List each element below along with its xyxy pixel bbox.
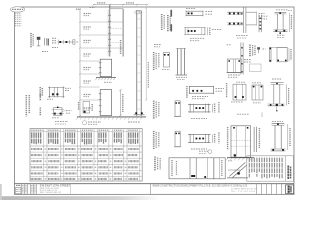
- wide beam elevation M10: [154, 157, 156, 172]
- faint rect band3: [250, 64, 262, 72]
- clip column tall (x241): [240, 43, 242, 75]
- moment connection R1: [231, 6, 241, 8]
- beam connection detail lower: [185, 27, 206, 29]
- column elevation E1 (tall): [109, 5, 111, 56]
- note text left: [42, 51, 48, 53]
- section symbol band2: [257, 47, 260, 49]
- beam plan with bolts: [58, 41, 75, 43]
- sheet border: [15, 7, 295, 194]
- legend block with vertical text: [247, 156, 294, 181]
- bubble at top of narrow column: [135, 11, 140, 14]
- table vertical header band: [31, 132, 33, 143]
- column detail R16: [272, 121, 283, 123]
- column elevation E2 (middle): [100, 59, 111, 76]
- notes column M1: [153, 52, 155, 70]
- beam right of column R1: [246, 11, 257, 13]
- detail: column plan C (x50-70,y106-119): [25, 95, 27, 117]
- stamp / logo cells: [20, 184, 22, 195]
- svg-text:TEL: 212 555 0199: TEL: 212 555 0199: [231, 191, 255, 193]
- note block band3: [244, 59, 251, 61]
- revision bubble top-left: [10, 7, 24, 12]
- dense note block band2: [249, 45, 251, 57]
- table column lines: [43, 129, 45, 181]
- small I-beam section: [37, 37, 41, 40]
- small note top-left band2: [227, 44, 232, 46]
- revision columns right: [256, 184, 258, 195]
- top dimension line 29-0: [93, 4, 148, 6]
- sheet number box: [286, 185, 294, 194]
- section M2: [164, 53, 170, 68]
- base detail left of E3: [78, 102, 80, 110]
- beam detail M4: [186, 86, 188, 98]
- notes column T1: [161, 14, 163, 30]
- column lines R15: [253, 127, 255, 152]
- ground line under elevation: [77, 116, 146, 118]
- column detail band4 C: [272, 78, 282, 80]
- details row y33-50 left: [30, 33, 32, 48]
- bar pair: [44, 38, 46, 46]
- right vertical dim line: [145, 8, 147, 100]
- rect detail band3 left: [227, 59, 241, 73]
- base/brace detail R14: [237, 113, 249, 115]
- revision note list: [15, 12, 21, 14]
- clip column R2: [258, 15, 260, 33]
- svg-text:BIN#: 1004563 NB 123: BIN#: 1004563 NB 123: [40, 192, 61, 194]
- beam group B: [153, 131, 155, 150]
- schedule table bottom-left: [30, 129, 142, 181]
- dimension string left of elevation: [79, 9, 81, 116]
- table data rows: [30, 151, 142, 153]
- plan detail band4 B: [252, 82, 261, 84]
- narrow column elevation right: [136, 11, 138, 116]
- beam connection detail top: [186, 8, 196, 10]
- level lines across elevation: [81, 21, 123, 23]
- legend sheet-number sub-box: [285, 156, 287, 181]
- section label strip TD2: [170, 24, 172, 31]
- table header row 1: [30, 131, 142, 133]
- text cluster: [52, 37, 57, 39]
- vtext strip band4: [226, 83, 228, 98]
- svg-text:EBMD CONSTRUCTION DEVELOPMENT: EBMD CONSTRUCTION DEVELOPMENT PLLC D.B. …: [153, 186, 248, 188]
- sheet number dark text: [288, 186, 290, 193]
- frame detail right band2: [269, 47, 271, 62]
- detail: bolted connection B (x39-72,y83-99): [39, 87, 41, 97]
- beam group A: [153, 101, 155, 120]
- section label strip TD1: [170, 10, 172, 17]
- dark bar: [48, 39, 49, 46]
- svg-text:536 EAST 13TH STREET: 536 EAST 13TH STREET: [40, 184, 71, 188]
- title block: [15, 183, 295, 185]
- column elevation E3 (bottom): [100, 90, 111, 116]
- gusset brace detail bottom: [228, 160, 233, 162]
- column detail R3: [276, 9, 288, 11]
- plan detail band4 A: [236, 81, 246, 83]
- column splice M3: [177, 49, 179, 75]
- caption below elevation: [82, 121, 86, 125]
